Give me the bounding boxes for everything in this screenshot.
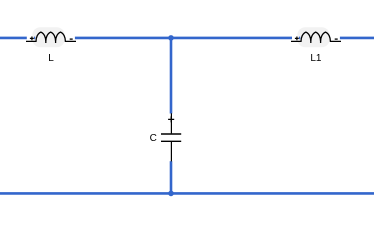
inductor L highlight	[32, 27, 64, 47]
inductor L1	[291, 32, 341, 43]
inductor L1 highlight	[297, 27, 329, 47]
wire top-right segment	[340, 37, 374, 40]
inductor L	[26, 32, 76, 43]
polarity - of L1	[335, 38, 338, 40]
wire vertical upper segment	[170, 38, 173, 114]
svg-text:L1: L1	[310, 53, 322, 64]
polarity - of L	[70, 38, 73, 40]
capacitor C top lead	[170, 113, 172, 133]
svg-text:C: C	[150, 133, 157, 144]
wire stub at L left terminal	[34, 37, 35, 40]
wire top-left segment	[0, 37, 27, 40]
polarity + of L	[30, 37, 34, 41]
capacitor C bottom lead	[170, 141, 172, 161]
svg-text:L: L	[48, 53, 54, 64]
wire stub at L1 left terminal	[299, 37, 300, 40]
capacitor C plates	[161, 134, 181, 141]
junction node top	[168, 35, 174, 41]
polarity + of C	[168, 116, 174, 122]
wire top-middle segment	[75, 37, 292, 40]
wire vertical lower segment	[170, 161, 173, 193]
polarity + of L1	[295, 37, 299, 41]
junction node bottom	[168, 191, 174, 197]
wire bottom rail	[0, 192, 374, 195]
